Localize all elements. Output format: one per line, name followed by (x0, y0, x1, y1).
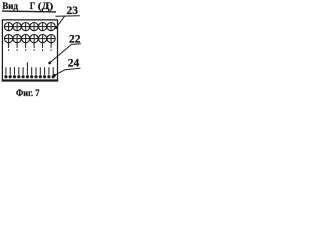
enclosure top edge (2, 19, 57, 21)
callout 24 underline (65, 68, 81, 70)
background (0, 0, 86, 100)
svg-text:Фиг. 7: Фиг. 7 (16, 88, 40, 99)
enclosure right edge (57, 19, 59, 81)
callout 22 leader dot (48, 61, 51, 64)
callout 22 leader line (50, 44, 72, 63)
callout 24 leader dot (53, 74, 56, 77)
hanging dashed feed lines below circles (9, 43, 52, 51)
svg-text:22: 22 (69, 34, 81, 46)
sprayer circles row 2 (6 crossed circles) (5, 35, 56, 43)
long middle needle (26, 62, 28, 75)
title underline (2, 10, 56, 13)
svg-text:Г: Г (30, 2, 35, 12)
callout 24 leader line (54, 70, 65, 76)
enclosure left edge (1, 19, 3, 81)
svg-text:23: 23 (67, 5, 79, 17)
callout 22 underline (71, 43, 81, 46)
svg-text:(Д): (Д) (38, 1, 53, 12)
enclosure bottom edge (bold) (2, 79, 58, 81)
sprayer circles row 1 (6 crossed circles) (5, 23, 56, 31)
callout 23 underline (56, 15, 80, 18)
needle row with droplet dots (12) (4, 62, 55, 78)
svg-text:24: 24 (68, 58, 80, 70)
callout 23 leader line (56, 16, 64, 27)
callout 23 leader dot (55, 26, 58, 29)
